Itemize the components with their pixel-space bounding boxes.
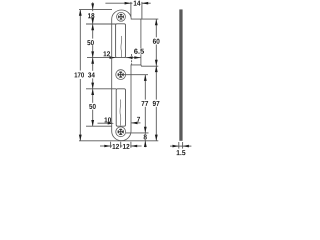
label background masks [74,0,148,149]
6.5 left arrow left at 126.3 [126,56,132,59]
chain pair at 57.6 [91,51,94,57]
plate outline [112,10,141,141]
label 12 [104,51,111,56]
dim 14 ext lines [130,2,132,17]
ext slot bottom / dim 12 / dim 6.5 line y=57.6 [87,57,116,59]
label 10 [105,117,112,122]
170 bottom arrow down at 140.6 [79,135,82,141]
upper slot wave [120,36,123,57]
6.5 right arrow right at 140.6 [134,56,140,59]
right chain line x=156.3 [155,19,157,37]
upper slot [116,24,126,58]
ext slot top y=24 [86,23,116,25]
7 arrow left at 131.2 [131,122,137,125]
screw hole bottom [116,127,126,137]
dim 77 line x=145.3 [144,75,146,100]
12+12 left arrow right at 110.6 [104,145,110,148]
dashed ext x=131.6 for 6.5 [131,54,133,65]
ext bottom screw CL y=131.4 [126,132,149,134]
ext top apex y=10.2 [79,9,112,11]
lower slot [116,89,125,126]
8 up at 140.6 (tail below) [144,141,147,147]
1.5 dim line y=146.1 [170,145,179,147]
screw hole top [117,12,126,21]
ext bottom y=140.6 full [79,140,158,142]
170 top arrow up at 10.2 [79,10,82,16]
1.5 right arrow left at 182.6 [183,145,189,148]
ext lower slot top y=88.8 [86,88,116,90]
label 60 [153,39,160,44]
chain: 18 top arrow down at 10.2 (tail above) [91,3,94,9]
right chain down at 140.6 [155,135,158,141]
77 up at 74.7 [144,75,147,81]
14 right arrow left at 141.9 [142,2,148,5]
12+12 dim line y=146 [100,145,111,147]
ext cutout top right y=66.2 with jog [141,65,158,66]
label 7 [137,117,140,122]
right chain up at 19.1 [155,19,158,25]
chain pair at 88.8 [91,83,94,89]
label 14 [134,1,141,6]
ext mid screw CL y=74.7 [124,74,148,76]
label 170 [75,72,84,77]
ext lower slot bottom y=126.2 [86,125,112,127]
lower slot wave [119,100,122,126]
chain bottom arrow down at 126.2 [91,120,94,126]
dim 10 line y=123.2 [98,122,111,124]
label 97 [153,101,160,106]
label 34 [88,72,95,77]
label 50 [89,104,96,109]
label 77 [141,101,148,106]
1.5 ext lines [178,142,180,149]
12+12 ext lines [110,142,112,148]
label 8 [144,134,147,139]
right chain pair at 65.9 [155,60,158,66]
ext step right y=19.1 [141,18,158,20]
label 12 [123,144,130,149]
label 50 [87,40,94,45]
14 left arrow right at 130.9 [125,2,131,5]
left chain line x=92.7 [92,2,94,11]
label 1.5 [177,150,186,155]
dim 7 line y=123.2 [131,122,140,124]
label 18 [88,13,94,18]
dim 8 pieces x=145.3 [144,133,146,136]
12 arrow right at 115.8 [110,56,116,59]
dim 170 line x=80.3 [79,10,81,71]
1.5 left arrow right at 178.8 [173,145,179,148]
screw hole middle [116,70,126,80]
chain pair at 24 [91,18,94,24]
dim 14 line/tails y=3.2 [105,2,130,4]
label 6.5 [134,49,144,54]
77 down at 131.4 [144,127,147,133]
12+12 right arrow left at 130.9 [131,145,137,148]
label 12 [113,144,120,149]
10 arrow right at 114 [108,122,114,125]
